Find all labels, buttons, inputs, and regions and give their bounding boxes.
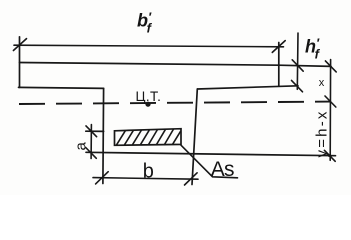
flange bottom edge right of web (extended to h'f dim line) bbox=[198, 86, 299, 89]
leader line to As label bbox=[181, 145, 238, 178]
tick b'f right bbox=[272, 41, 285, 53]
flange left edge (extends up past dim line) bbox=[19, 37, 21, 88]
reinforcement area As (hatched rectangle) bbox=[115, 129, 182, 146]
svg-text:b: b bbox=[143, 161, 154, 183]
tick h'f bottom bbox=[292, 80, 303, 91]
svg-text:b′f: b′f bbox=[137, 10, 153, 36]
flange right edge (extends up past dim line) bbox=[278, 43, 280, 87]
dimension line x and y=h-x bbox=[329, 60, 331, 161]
centroid dot bbox=[145, 102, 150, 107]
tick h'f top bbox=[292, 60, 303, 71]
svg-text:Ц.Т.: Ц.Т. bbox=[136, 89, 162, 104]
centroid dashed axis bbox=[19, 102, 331, 104]
tick y bottom bbox=[324, 150, 335, 161]
flange bottom edge left of web bbox=[19, 87, 104, 88]
tick a bottom bbox=[86, 148, 97, 159]
dimension line a bbox=[90, 125, 92, 159]
flange top edge (with right extension to x-dim line) bbox=[20, 63, 332, 67]
tick x bottom / y top (at centroid) bbox=[325, 96, 336, 107]
a-dim top extension line bbox=[86, 130, 104, 132]
svg-text:h′f: h′f bbox=[305, 36, 321, 62]
tick b'f left bbox=[13, 39, 26, 51]
tick a top bbox=[86, 126, 97, 137]
dimension line b bbox=[93, 178, 198, 180]
tick b right bbox=[185, 173, 198, 185]
beam bottom edge (extended left to a-dim and right to y-dim line) bbox=[86, 152, 336, 155]
svg-text:x: x bbox=[319, 77, 325, 89]
dimension line b'f bbox=[14, 45, 284, 47]
dimension line h'f bbox=[296, 33, 299, 89]
web right edge (extends down to b dim line) bbox=[192, 89, 197, 185]
hatching of As bbox=[117, 129, 181, 145]
tick b left bbox=[96, 172, 109, 184]
tick x top bbox=[325, 61, 336, 72]
svg-text:a: a bbox=[73, 142, 90, 151]
svg-text:y=h-x: y=h-x bbox=[314, 109, 331, 157]
svg-text:As: As bbox=[211, 158, 234, 181]
web left edge (extends down to b dim line) bbox=[102, 88, 105, 183]
